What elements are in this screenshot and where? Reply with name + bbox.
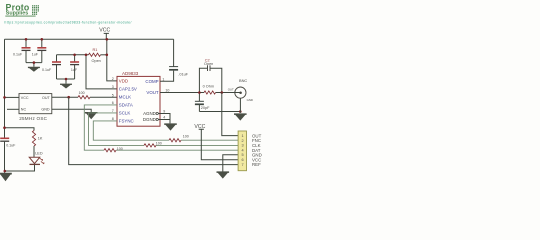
- wire FSYNC run: [93, 121, 238, 140]
- svg-text:VCC: VCC: [21, 96, 29, 100]
- wire SCLK run: [89, 113, 239, 145]
- wire REF run: [69, 97, 239, 164]
- svg-text:5: 5: [112, 93, 114, 97]
- svg-text:SCLK: SCLK: [119, 110, 131, 115]
- svg-text:BNC: BNC: [239, 78, 247, 83]
- svg-text:100: 100: [183, 134, 189, 138]
- node LED tap junction: [3, 126, 6, 129]
- wire pair2 bottom: [57, 79, 75, 84]
- capacitor C2 Open: [199, 58, 221, 92]
- svg-text:FSYNC: FSYNC: [119, 118, 134, 123]
- capacitor C .01uF: [169, 67, 189, 77]
- svg-text:100: 100: [156, 142, 162, 146]
- svg-text:25MHz OSC: 25MHz OSC: [19, 116, 47, 121]
- ground BNC: [234, 113, 247, 120]
- VCC power symbol header: [194, 124, 238, 160]
- wire MCLK row: [52, 96, 117, 98]
- resistor R1 Open: [89, 48, 107, 63]
- wire OSC VCC: [5, 96, 20, 98]
- svg-text:5: 5: [242, 153, 244, 157]
- svg-text:1: 1: [242, 134, 244, 138]
- svg-text:REF: REF: [252, 162, 261, 167]
- svg-text:1K: 1K: [38, 137, 43, 141]
- resistor R 100 (MCLK): [78, 91, 90, 99]
- resistor R 100 (DAT): [104, 147, 123, 152]
- wire left VCC rail: [4, 39, 6, 138]
- ground pair1: [28, 67, 40, 72]
- svg-text:100: 100: [79, 91, 85, 95]
- wire AGND DGND to ground: [156, 112, 170, 123]
- svg-text:1uF: 1uF: [71, 68, 78, 72]
- svg-text:0.1uF: 0.1uF: [42, 68, 52, 72]
- svg-text:7: 7: [242, 163, 244, 167]
- capacitor C 0.1uF (bottom-left): [0, 138, 16, 147]
- svg-text:VDD: VDD: [119, 78, 128, 83]
- svg-text:3: 3: [112, 85, 114, 89]
- logo ProtoSupplies: [5, 3, 39, 17]
- svg-text:.01uF: .01uF: [178, 72, 188, 76]
- resistor R 100 (FNC): [169, 134, 189, 141]
- svg-text:2: 2: [112, 77, 114, 81]
- svg-text:AD9833: AD9833: [122, 71, 139, 76]
- node VOUT junctions: [198, 91, 242, 113]
- wire LED return: [5, 165, 35, 171]
- svg-text:Open: Open: [204, 62, 213, 66]
- resistor R 0 Ohm: [203, 85, 216, 95]
- node OSC VCC junction: [3, 96, 6, 99]
- svg-text:LED: LED: [35, 152, 43, 156]
- connector J1 header: [238, 131, 246, 171]
- pin number labels U1 right: [162, 77, 169, 119]
- wire header GND pin5: [223, 155, 238, 172]
- op-amp U1 AD9833: [117, 71, 160, 126]
- svg-text:https://protosupplies.com/prod: https://protosupplies.com/product/ad9833…: [5, 21, 132, 25]
- capacitor C 0.1uF (pair2): [42, 55, 61, 79]
- VCC power symbol top: [99, 28, 110, 40]
- wire VCC top rail: [5, 38, 174, 40]
- svg-text:0.1uF: 0.1uF: [13, 53, 23, 57]
- svg-text:GND: GND: [247, 98, 253, 102]
- svg-text:2: 2: [242, 139, 244, 143]
- svg-text:SDATA: SDATA: [119, 102, 133, 107]
- svg-text:0.1uF: 0.1uF: [6, 144, 16, 148]
- svg-text:NC: NC: [21, 108, 27, 112]
- svg-text:1uF: 1uF: [32, 53, 39, 57]
- svg-text:GND: GND: [41, 108, 50, 112]
- wire COMP to cap: [160, 39, 174, 81]
- oscillator X1 25MHz OSC: [19, 94, 52, 122]
- svg-text:DGND: DGND: [143, 117, 156, 122]
- wire VDD vertical: [107, 39, 117, 81]
- svg-text:R1: R1: [93, 48, 98, 52]
- svg-text:VOUT: VOUT: [146, 90, 159, 95]
- node junctions top area: [25, 38, 108, 80]
- wire VOUT row: [160, 92, 204, 94]
- wire LED branch tap: [5, 128, 35, 131]
- svg-text:CAP2.5V: CAP2.5V: [119, 86, 137, 91]
- pin number labels U1 left: [112, 77, 114, 121]
- wire OSC NC stub: [7, 108, 19, 110]
- connector BNC: [228, 78, 253, 102]
- svg-text:OUT: OUT: [42, 96, 51, 100]
- resistor R 100 (CLK): [144, 142, 162, 147]
- wire left rail lower: [4, 142, 6, 173]
- wire 0ohm to BNC: [216, 92, 241, 94]
- capacitor C 20pF: [195, 93, 210, 112]
- wire BNC gnd drop: [239, 98, 241, 113]
- capacitor C 1uF (top-left pair): [32, 39, 47, 62]
- wire pair2 top: [57, 54, 89, 56]
- wire 1K to LED: [33, 146, 35, 157]
- svg-text:Open: Open: [92, 59, 101, 63]
- svg-text:3: 3: [242, 144, 244, 148]
- capacitor C 0.1uF (top-left pair): [13, 39, 31, 62]
- ground bottom-left: [0, 173, 12, 182]
- svg-text:COMP: COMP: [145, 79, 158, 84]
- svg-text:10: 10: [165, 88, 169, 92]
- svg-text:4: 4: [242, 148, 244, 152]
- svg-text:100: 100: [117, 147, 123, 151]
- svg-text:MCLK: MCLK: [119, 95, 131, 100]
- svg-text:AGND: AGND: [143, 111, 156, 116]
- svg-text:0 Ohm: 0 Ohm: [203, 85, 214, 89]
- ground header: [217, 171, 230, 178]
- ground pair2: [60, 84, 72, 89]
- svg-text:6: 6: [242, 158, 244, 162]
- wire OUT pin1 drop: [222, 93, 238, 136]
- node MCLK junction: [67, 96, 70, 99]
- wire 20pF bottom to BNC gnd: [199, 111, 240, 113]
- wire SDATA run: [84, 105, 238, 150]
- ground U1: [164, 123, 177, 130]
- ground OSC: [85, 112, 98, 119]
- svg-text:OUT: OUT: [228, 87, 234, 91]
- wire CAP2.5V riser: [86, 55, 117, 89]
- wire OSC GND: [52, 109, 91, 112]
- LED D1: [29, 152, 44, 165]
- svg-text:VCC: VCC: [99, 28, 110, 34]
- pin labels header: [252, 133, 262, 167]
- svg-text:20pF: 20pF: [201, 106, 210, 110]
- wire pair1 bottom: [26, 63, 42, 67]
- resistor R 1K: [32, 131, 43, 147]
- node bottom-left junction: [4, 170, 7, 173]
- capacitor C 1uF (pair2): [70, 55, 79, 79]
